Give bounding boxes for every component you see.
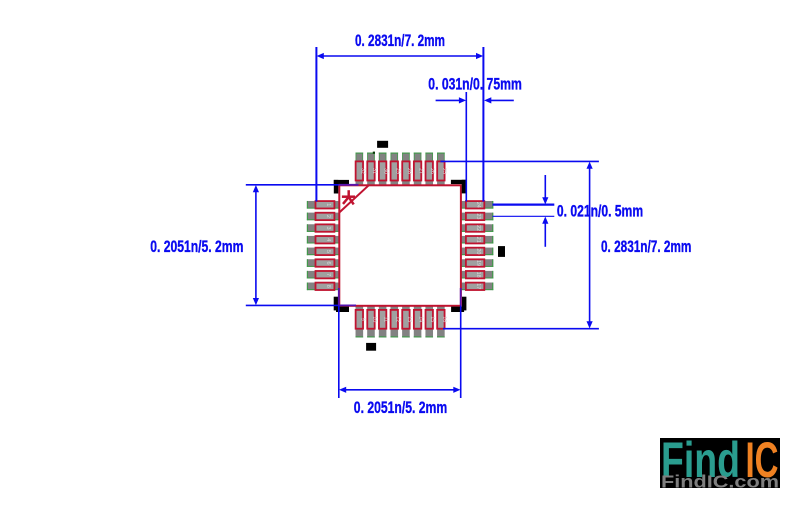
pad 16 (bottom side: copper, pin outline, number)	[437, 306, 447, 338]
pin-1 chamfer line	[339, 185, 368, 212]
pad 27 (top side: copper, pin outline, number)	[414, 153, 424, 186]
pad 3 (left side: copper, pin outline, number)	[307, 224, 339, 232]
pad 7 (left side: copper, pin outline, number)	[307, 271, 339, 279]
svg-text:0. 021n/0. 5mm: 0. 021n/0. 5mm	[557, 201, 643, 220]
dimension 0.031n/0.75mm	[436, 92, 514, 202]
svg-text:13: 13	[406, 316, 412, 322]
corner mark bottom-right	[451, 297, 466, 312]
svg-text:30: 30	[383, 168, 389, 174]
pad 10 (bottom side: copper, pin outline, number)	[367, 306, 377, 338]
svg-text:8: 8	[325, 285, 331, 288]
pad 11 (bottom side: copper, pin outline, number)	[379, 306, 389, 338]
svg-text:3: 3	[325, 227, 331, 230]
svg-text:25: 25	[441, 168, 447, 174]
svg-text:2: 2	[325, 215, 331, 218]
svg-text:24: 24	[475, 202, 481, 208]
pad 19 (right side: copper, pin outline, number)	[461, 259, 493, 267]
corner mark bottom-left	[334, 297, 349, 312]
pin-1 marker asterisk	[342, 190, 355, 204]
pad 26 (top side: copper, pin outline, number)	[425, 153, 435, 186]
pad 22 (right side: copper, pin outline, number)	[461, 224, 493, 232]
pad 15 (bottom side: copper, pin outline, number)	[425, 306, 435, 338]
svg-text:5: 5	[325, 250, 331, 253]
svg-text:0. 031n/0. 75mm: 0. 031n/0. 75mm	[428, 74, 522, 93]
dimension right 0.2831n/7.2mm	[440, 161, 599, 328]
svg-text:0. 2831n/7. 2mm: 0. 2831n/7. 2mm	[601, 237, 691, 256]
pad 8 (left side: copper, pin outline, number)	[307, 283, 339, 291]
svg-text:23: 23	[475, 213, 481, 219]
corner mark top-right	[451, 180, 466, 194]
pad 9 (bottom side: copper, pin outline, number)	[356, 306, 366, 338]
svg-text:28: 28	[406, 168, 412, 174]
dimension left 0.2051n/5.2mm	[246, 185, 359, 306]
svg-text:0. 2831n/7. 2mm: 0. 2831n/7. 2mm	[355, 31, 445, 50]
pad 5 (left side: copper, pin outline, number)	[307, 248, 339, 256]
pad 21 (right side: copper, pin outline, number)	[461, 236, 493, 244]
pad 4 (left side: copper, pin outline, number)	[307, 236, 339, 244]
svg-text:0. 2051n/5. 2mm: 0. 2051n/5. 2mm	[354, 398, 447, 417]
corner mark top-left	[334, 180, 349, 194]
pad 2 (left side: copper, pin outline, number)	[307, 213, 339, 221]
pad 1 (left side: copper, pin outline, number)	[307, 201, 339, 209]
dimension 0.021n/0.5mm pitch	[493, 175, 555, 247]
svg-text:0. 2051n/5. 2mm: 0. 2051n/5. 2mm	[150, 237, 243, 256]
pad 29 (top side: copper, pin outline, number)	[390, 153, 400, 186]
svg-text:11: 11	[383, 316, 389, 322]
svg-text:9: 9	[359, 318, 365, 321]
pad 24 (right side: copper, pin outline, number)	[461, 201, 493, 209]
svg-text:18: 18	[475, 272, 481, 278]
FindIC logo block	[660, 432, 780, 492]
pad 14 (bottom side: copper, pin outline, number)	[414, 306, 424, 338]
pad 28 (top side: copper, pin outline, number)	[402, 153, 412, 186]
svg-text:15: 15	[429, 316, 435, 322]
svg-text:4: 4	[325, 238, 331, 241]
dimension top 0.2831n/7.2mm	[316, 47, 483, 202]
svg-text:26: 26	[429, 168, 435, 174]
silkscreen dot bottom	[366, 343, 376, 351]
svg-text:1: 1	[325, 203, 331, 206]
svg-text:17: 17	[475, 283, 481, 289]
pad 13 (bottom side: copper, pin outline, number)	[402, 306, 412, 338]
pin1 index dot	[373, 152, 375, 154]
pad 18 (right side: copper, pin outline, number)	[461, 271, 493, 279]
svg-text:19: 19	[475, 260, 481, 266]
svg-text:29: 29	[394, 168, 400, 174]
svg-text:27: 27	[418, 168, 424, 174]
pad 25 (top side: copper, pin outline, number)	[437, 153, 447, 186]
pad 30 (top side: copper, pin outline, number)	[379, 153, 389, 186]
silkscreen dot top	[377, 141, 388, 148]
svg-text:10: 10	[371, 316, 377, 322]
svg-text:6: 6	[325, 261, 331, 264]
pad 6 (left side: copper, pin outline, number)	[307, 259, 339, 267]
svg-text:14: 14	[418, 316, 424, 322]
svg-text:20: 20	[475, 248, 481, 254]
pad 17 (right side: copper, pin outline, number)	[461, 283, 493, 291]
pad 12 (bottom side: copper, pin outline, number)	[390, 306, 400, 338]
IC body outline U1	[339, 185, 461, 305]
svg-text:22: 22	[475, 225, 481, 231]
svg-text:16: 16	[441, 316, 447, 322]
svg-text:21: 21	[475, 237, 481, 243]
pad 23 (right side: copper, pin outline, number)	[461, 213, 493, 221]
svg-text:31: 31	[371, 168, 377, 174]
svg-text:32: 32	[359, 168, 365, 174]
dimension bottom 0.2051n/5.2mm	[339, 288, 461, 398]
svg-text:7: 7	[325, 273, 331, 276]
svg-text:FindIC.com: FindIC.com	[661, 472, 779, 492]
pad 32 (top side: copper, pin outline, number)	[356, 153, 366, 186]
pad 31 (top side: copper, pin outline, number)	[367, 153, 377, 186]
pad 20 (right side: copper, pin outline, number)	[461, 248, 493, 256]
svg-text:12: 12	[394, 316, 400, 322]
silkscreen dot right	[498, 246, 505, 257]
